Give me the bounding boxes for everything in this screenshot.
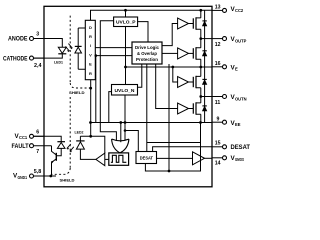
svg-text:DESAT: DESAT xyxy=(231,144,251,151)
DESAT block xyxy=(136,152,157,164)
pin 7 FAULT xyxy=(12,143,52,155)
IC package outline xyxy=(44,6,212,187)
buffer A2 xyxy=(178,48,189,59)
svg-text:E: E xyxy=(235,67,238,72)
pin 13 VCC2 xyxy=(212,4,244,13)
svg-text:GMOS: GMOS xyxy=(235,157,244,162)
svg-text:V: V xyxy=(89,52,92,57)
svg-text:ANODE: ANODE xyxy=(8,36,28,43)
svg-text:15: 15 xyxy=(215,140,221,146)
light arrows LED2 to photodiode PD2 xyxy=(67,144,74,153)
svg-text:SHIELD: SHIELD xyxy=(69,91,85,95)
pin 9 VEE xyxy=(212,116,241,127)
svg-text:16: 16 xyxy=(215,61,221,67)
pin 5,8 VGND1 xyxy=(13,169,56,180)
pin 12 VOUTP xyxy=(212,36,247,48)
UVLO_P block xyxy=(114,17,138,27)
svg-text:12: 12 xyxy=(215,42,221,48)
svg-text:Drive Logic: Drive Logic xyxy=(135,45,159,50)
svg-text:13: 13 xyxy=(215,4,221,10)
VEE / fault bus rail xyxy=(89,121,212,124)
svg-text:R: R xyxy=(89,34,92,39)
LED2 driver buffer (left pointing) xyxy=(96,153,109,166)
wire driver tap down to bus xyxy=(95,56,97,123)
DRIVER block U2 xyxy=(85,20,95,79)
Drive Logic and Overlap Protection block U3 xyxy=(132,42,162,64)
svg-text:CC2: CC2 xyxy=(235,8,244,13)
wire Drive Logic blanking to DESAT block xyxy=(147,64,201,152)
VCC2 top rail xyxy=(91,9,213,20)
wire UVLO_P left output down to OR gate left input xyxy=(100,21,116,141)
svg-text:SHIELD: SHIELD xyxy=(60,178,75,182)
wire bus to OR gate center input xyxy=(119,121,122,142)
wire DESAT output up to OR gate right input xyxy=(125,131,138,152)
wire Drive Logic to buffer A1 (jog) xyxy=(162,24,178,46)
MOSFET Q3 (VOUTN high side) xyxy=(189,67,201,97)
wire UVLO_N bottom through bus to OR gate right input xyxy=(124,95,127,141)
svg-text:11: 11 xyxy=(215,100,221,106)
wire UVLO_N right output to Drive Logic xyxy=(138,64,142,87)
svg-text:OUTP: OUTP xyxy=(235,38,247,43)
svg-text:FAULT: FAULT xyxy=(12,143,29,150)
svg-text:D: D xyxy=(89,25,92,30)
pulse generator block xyxy=(109,153,129,165)
wire DRIVER to Drive Logic (lower) xyxy=(95,54,133,57)
wire UVLO_P bottom to VE rail to UVLO_N top xyxy=(124,27,127,85)
svg-text:UVLO_N: UVLO_N xyxy=(115,88,136,93)
pin 15 DESAT xyxy=(212,140,250,151)
body diode D2 xyxy=(202,39,206,67)
buffer A1 xyxy=(178,18,189,29)
OR gate fault combiner xyxy=(112,139,129,153)
wire UVLO_P to VCC2 rail xyxy=(125,10,127,17)
wire Drive Logic bottom to DESAT return xyxy=(168,64,170,171)
wire VE branch to buffer A3 xyxy=(171,66,177,82)
svg-text:DESAT: DESAT xyxy=(140,156,154,161)
svg-text:GND1: GND1 xyxy=(18,175,28,180)
MOSFET Q4 (VOUTN low side) xyxy=(189,97,201,123)
MOSFET Q1 (VOUTP high side) xyxy=(189,10,201,38)
wire Drive Logic to buffer A4 xyxy=(156,64,178,109)
UVLO_N block xyxy=(112,85,138,96)
body diode D1 xyxy=(202,10,206,38)
wire DESAT bottom return to VEE xyxy=(145,123,200,173)
svg-text:9: 9 xyxy=(217,116,220,122)
VGMOS buffer A5 xyxy=(193,152,213,165)
svg-text:Protection: Protection xyxy=(136,57,158,62)
wire Drive Logic to buffer A2 xyxy=(162,52,178,54)
svg-text:OUTN: OUTN xyxy=(235,96,247,101)
node VOUTP xyxy=(199,37,212,40)
svg-text:UVLO_P: UVLO_P xyxy=(116,20,136,25)
body diode D4 xyxy=(202,97,206,123)
wire UVLO_N left output down to bus xyxy=(109,92,112,123)
svg-text:& Overlap: & Overlap xyxy=(137,51,157,56)
svg-text:EE: EE xyxy=(235,122,241,127)
LED1 xyxy=(34,39,67,65)
svg-text:7: 7 xyxy=(36,149,39,155)
svg-text:E: E xyxy=(89,62,92,67)
light arrows LED1 to photodiode xyxy=(65,44,72,53)
wire DESAT to VGMOS buffer xyxy=(157,157,193,159)
photodiode PD1 xyxy=(75,28,86,69)
LED2 xyxy=(75,80,105,160)
isolation barrier (dashed) upper xyxy=(70,16,89,88)
pin 11 VOUTN xyxy=(212,94,247,106)
svg-text:6: 6 xyxy=(36,129,39,135)
svg-text:LED1: LED1 xyxy=(54,60,63,64)
svg-text:CC1: CC1 xyxy=(19,135,28,140)
svg-text:2,4: 2,4 xyxy=(34,63,42,69)
svg-text:3: 3 xyxy=(36,31,39,37)
buffer A4 xyxy=(178,103,189,114)
pin 3 ANODE xyxy=(8,31,44,42)
svg-text:LED2: LED2 xyxy=(75,130,84,134)
pin 16 VE xyxy=(212,61,238,72)
svg-text:R: R xyxy=(89,71,92,76)
svg-text:CATHODE: CATHODE xyxy=(3,55,28,62)
pin 2,4 CATHODE xyxy=(3,55,44,69)
buffer A3 xyxy=(178,77,189,88)
VE rail xyxy=(126,66,213,69)
wire DRIVER to Drive Logic (upper) xyxy=(95,47,132,49)
body diode D3 xyxy=(202,67,206,97)
photodiode PD2 (input side) xyxy=(34,136,65,156)
isolation barrier (dashed) lower xyxy=(52,97,70,174)
svg-text:5,8: 5,8 xyxy=(34,169,42,175)
MOSFET Q2 (VOUTP low side) xyxy=(189,39,201,67)
DESAT pin wire xyxy=(153,147,212,152)
node VOUTN xyxy=(199,95,212,98)
wire UVLO_P right to Drive Logic top xyxy=(138,22,148,42)
pin 14 VGMOS xyxy=(212,155,244,166)
transistor Q5 (FAULT output NPN) xyxy=(49,146,56,178)
pin 6 VCC1 xyxy=(15,129,45,140)
svg-text:14: 14 xyxy=(215,160,221,166)
svg-text:I: I xyxy=(90,43,91,48)
